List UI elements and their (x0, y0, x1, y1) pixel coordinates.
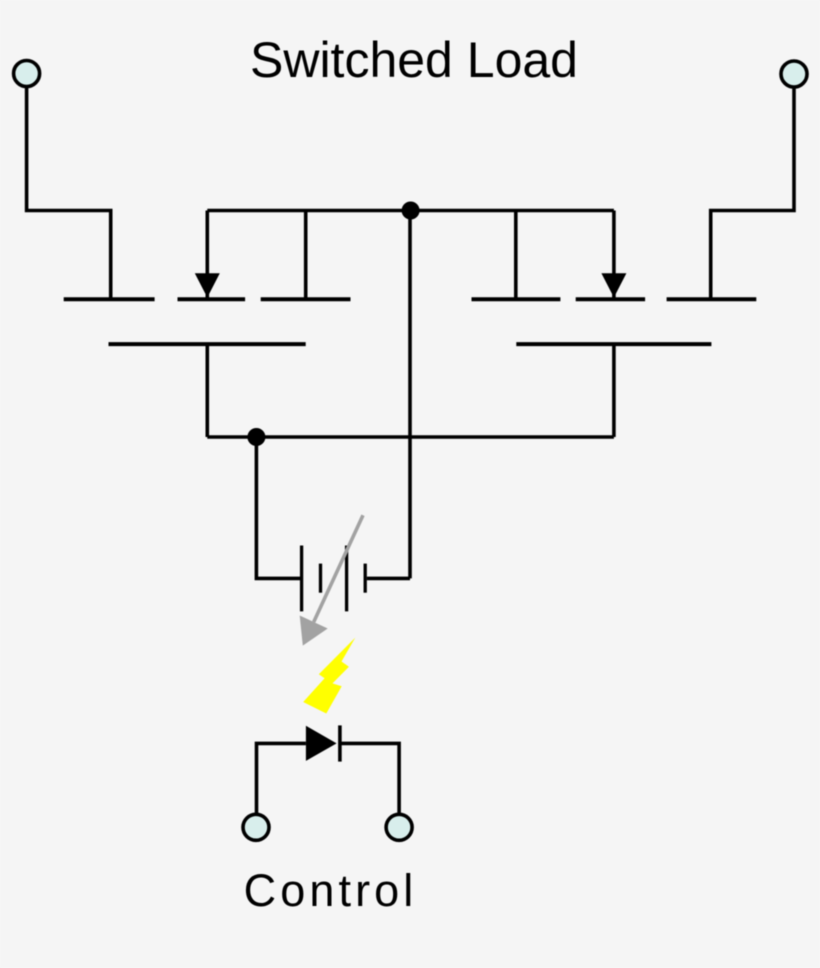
diode LED cathode bar (338, 725, 342, 761)
wire right gate lead (612, 344, 616, 437)
wire left body lead (206, 211, 210, 298)
node junction gate (247, 428, 265, 446)
wire LED cathode (341, 743, 399, 813)
transistor Q2 right MOSFET bars (472, 299, 757, 344)
light arrow gray shaft (314, 515, 363, 622)
light arrow gray head (300, 616, 328, 646)
wire top rail (207, 209, 614, 213)
wire from right load terminal (711, 86, 794, 299)
transistor Q2 body arrowhead (601, 273, 626, 297)
wire node to battery (256, 437, 300, 578)
terminal load right (781, 61, 807, 87)
svg-text:Control: Control (244, 865, 418, 916)
wire left drain lead (304, 211, 308, 300)
wire left gate lead (206, 344, 210, 437)
lightning bolt (303, 638, 355, 714)
wire battery right lead (367, 577, 410, 581)
wire from left load terminal (27, 86, 111, 299)
wire right body lead (612, 211, 616, 298)
transistor Q1 left MOSFET bars (64, 299, 351, 344)
terminal control right (386, 814, 412, 840)
svg-text:Switched Load: Switched Load (250, 32, 578, 88)
wire LED anode (257, 743, 306, 813)
node junction top (402, 202, 420, 220)
diode LED triangle (306, 726, 337, 761)
transistor Q1 body arrowhead (195, 273, 220, 297)
terminal control left (243, 814, 269, 840)
battery photovoltaic stack plates (302, 546, 366, 612)
terminal load left (14, 61, 40, 87)
wire gate bus (207, 435, 614, 439)
wire right drain lead (514, 211, 518, 300)
wire center vertical (408, 211, 412, 579)
